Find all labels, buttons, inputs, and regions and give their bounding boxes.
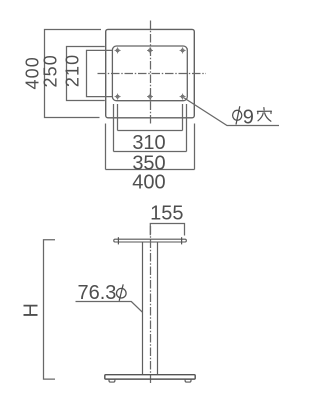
dimension H bracket (44, 240, 56, 379)
base plate outline (plan view 400x400) (106, 29, 195, 117)
hole top-left (115, 47, 121, 53)
svg-text:H: H (20, 303, 42, 317)
svg-text:400: 400 (22, 56, 42, 89)
kanji hole glyph (257, 108, 271, 122)
dimension 210 vertical bracket (87, 50, 113, 96)
label phi symbol of 76.3 (117, 284, 127, 300)
bolt tick left (117, 237, 119, 244)
hole top-center (147, 47, 153, 53)
column left edge (142, 242, 144, 375)
dimension 400 bottom line (106, 169, 195, 171)
elevation centerline (150, 226, 152, 384)
svg-text:250: 250 (40, 54, 60, 87)
base bar (105, 375, 195, 379)
vertical centerline (plan) (150, 21, 152, 125)
dimension 400 vertical bracket (45, 30, 102, 118)
elevation top mounting bar (114, 239, 187, 242)
svg-text:210: 210 (62, 54, 82, 87)
column right edge (157, 242, 159, 375)
svg-text:310: 310 (132, 132, 165, 154)
dimension 350 extension lines (113, 104, 115, 152)
leader line phi9 hole (184, 98, 279, 126)
dimension 250 vertical bracket (67, 47, 105, 101)
label phi symbol of phi9 (233, 106, 242, 124)
foot right (185, 379, 191, 382)
foot left (109, 379, 115, 382)
svg-text:400: 400 (132, 171, 165, 193)
inner rounded square (350x250) (112, 46, 187, 101)
hole bottom-center (147, 94, 153, 100)
svg-text:76.3: 76.3 (78, 282, 117, 304)
dimension 155 bracket (150, 224, 184, 236)
horizontal centerline (plan) (98, 73, 207, 75)
dimension 310 extension lines (117, 104, 119, 131)
svg-text:9: 9 (243, 106, 254, 128)
dimension 350 line (114, 151, 187, 153)
hole bottom-left (115, 94, 121, 100)
hole bottom-right (180, 94, 186, 100)
dimension 400 extension lines (105, 124, 107, 170)
hole top-right (180, 47, 186, 53)
dimension 310 line (118, 130, 183, 132)
bolt tick right (181, 237, 183, 244)
svg-text:155: 155 (150, 203, 183, 225)
leader line 76.3 (76, 302, 143, 313)
